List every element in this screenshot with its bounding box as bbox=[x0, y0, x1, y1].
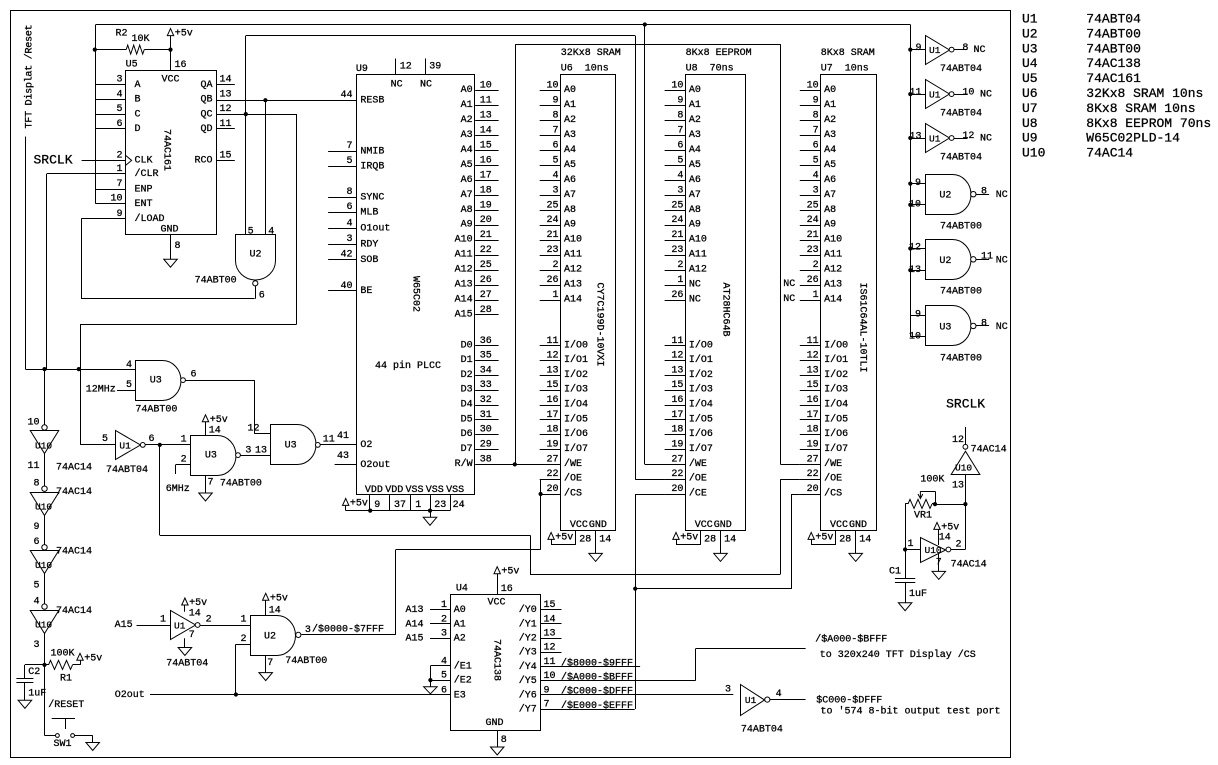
svg-text:AT28HC64B: AT28HC64B bbox=[720, 283, 731, 337]
svg-text:A12: A12 bbox=[455, 265, 473, 276]
svg-text:23: 23 bbox=[546, 245, 558, 256]
svg-text:R1: R1 bbox=[60, 673, 72, 684]
svg-text:A11: A11 bbox=[689, 250, 707, 261]
svg-text:/OE: /OE bbox=[824, 473, 842, 485]
svg-text:5: 5 bbox=[248, 227, 254, 238]
svg-text:74ABT00: 74ABT00 bbox=[135, 405, 177, 416]
svg-text:32Kx8 SRAM: 32Kx8 SRAM bbox=[561, 48, 621, 59]
svg-text:4: 4 bbox=[552, 170, 558, 181]
svg-text:/$E000-$EFFF: /$E000-$EFFF bbox=[561, 700, 633, 712]
svg-text:25: 25 bbox=[546, 200, 558, 211]
svg-text:A13: A13 bbox=[406, 605, 424, 616]
memory U8 address pins bbox=[665, 90, 686, 92]
svg-text:U1: U1 bbox=[1022, 12, 1038, 27]
svg-text:A2: A2 bbox=[689, 115, 701, 126]
svg-text:/OE: /OE bbox=[689, 473, 707, 485]
wire U8 /WE tie-high riser bbox=[644, 25, 646, 465]
wire QC riser to U8 /OE bus bbox=[245, 36, 247, 114]
svg-text:I/O5: I/O5 bbox=[689, 413, 713, 425]
svg-text:74ABT04: 74ABT04 bbox=[940, 64, 982, 75]
svg-text:21: 21 bbox=[480, 230, 492, 241]
svg-text:6: 6 bbox=[259, 290, 265, 301]
svg-text:43: 43 bbox=[337, 451, 349, 462]
svg-text:U10: U10 bbox=[955, 462, 972, 473]
svg-text:VCC: VCC bbox=[570, 520, 588, 531]
junction dot U9 ground bbox=[428, 509, 432, 513]
svg-text:100K: 100K bbox=[51, 649, 75, 660]
memory U8 body bbox=[686, 75, 746, 531]
svg-text:3: 3 bbox=[813, 185, 819, 196]
ground at SW1 bbox=[86, 743, 100, 751]
svg-text:23: 23 bbox=[807, 245, 819, 256]
svg-text:8: 8 bbox=[552, 111, 558, 122]
svg-text:19: 19 bbox=[546, 439, 558, 450]
svg-text:32: 32 bbox=[480, 395, 492, 406]
U3b pin 14 +5v bbox=[205, 422, 207, 435]
svg-text:A15: A15 bbox=[406, 634, 424, 645]
ground at U7 bbox=[849, 553, 863, 561]
svg-text:74ABT04: 74ABT04 bbox=[741, 725, 783, 736]
wire O2out to U4 E3 bbox=[150, 694, 450, 696]
svg-text:A5: A5 bbox=[689, 160, 701, 171]
svg-text:A1: A1 bbox=[689, 100, 701, 111]
svg-text:+5v: +5v bbox=[815, 532, 833, 543]
svg-text:A14: A14 bbox=[564, 295, 582, 306]
svg-text:U1: U1 bbox=[119, 440, 131, 451]
svg-text:A0: A0 bbox=[824, 85, 836, 96]
svg-text:8: 8 bbox=[175, 241, 181, 252]
svg-text:A4: A4 bbox=[461, 145, 473, 156]
svg-text:74AC161: 74AC161 bbox=[1086, 71, 1141, 86]
svg-text:8Kx8 SRAM 10ns: 8Kx8 SRAM 10ns bbox=[1086, 101, 1195, 116]
svg-text:I/O0: I/O0 bbox=[824, 339, 848, 351]
svg-text:10: 10 bbox=[909, 200, 921, 211]
switch SW1 bbox=[56, 734, 60, 738]
wire /E1 /E2 tie to ground bbox=[430, 665, 450, 667]
svg-text:21: 21 bbox=[807, 230, 819, 241]
U3b input 2 stub + 6MHz label bbox=[176, 464, 191, 466]
nand U2 spare (12,13->11) 74ABT00 bbox=[908, 246, 912, 250]
svg-text:U8: U8 bbox=[1022, 116, 1038, 131]
svg-text:U7 10ns: U7 10ns bbox=[821, 64, 869, 75]
U10 osc pin 7 ground bbox=[938, 554, 940, 571]
svg-text:VCC: VCC bbox=[830, 520, 848, 531]
svg-text:C2: C2 bbox=[28, 667, 40, 678]
svg-text:17: 17 bbox=[480, 170, 492, 181]
ground at U6 bbox=[589, 553, 603, 561]
U2e pin 7 ground bbox=[265, 655, 267, 672]
svg-text:/RESET: /RESET bbox=[48, 699, 84, 711]
svg-text:22: 22 bbox=[671, 469, 683, 480]
svg-text:A13: A13 bbox=[824, 280, 842, 291]
svg-text:A10: A10 bbox=[564, 235, 582, 246]
svg-text:I/O0: I/O0 bbox=[564, 339, 588, 351]
U5 pin 16 VCC stub bbox=[170, 50, 172, 71]
inverter U1 (QC divider buffer) 74ABT04 bbox=[116, 431, 141, 460]
svg-text:34: 34 bbox=[480, 365, 492, 376]
memory U7 body bbox=[821, 75, 877, 531]
svg-text:33: 33 bbox=[480, 380, 492, 391]
svg-text:U3: U3 bbox=[205, 450, 217, 461]
svg-text:U2: U2 bbox=[250, 250, 262, 261]
svg-text:41: 41 bbox=[337, 431, 349, 442]
junction dot R/W to U6 /WE bbox=[513, 462, 517, 466]
svg-text:19: 19 bbox=[807, 439, 819, 450]
svg-text:10: 10 bbox=[546, 81, 558, 92]
wire U5 /CLR from left bbox=[47, 173, 126, 175]
svg-text:4: 4 bbox=[776, 689, 782, 700]
svg-text:GND: GND bbox=[486, 718, 504, 729]
svg-text:CLK: CLK bbox=[135, 156, 153, 167]
svg-text:9: 9 bbox=[915, 43, 921, 54]
svg-text:/CS: /CS bbox=[824, 488, 842, 500]
U4 GND pin 8 bbox=[497, 730, 499, 747]
svg-text:A2: A2 bbox=[564, 115, 576, 126]
U9 top pin 39 NC bbox=[425, 59, 427, 75]
svg-text:6MHz: 6MHz bbox=[166, 484, 190, 495]
svg-text:D5: D5 bbox=[461, 414, 473, 425]
svg-text:A10: A10 bbox=[689, 235, 707, 246]
svg-text:7: 7 bbox=[346, 141, 352, 152]
svg-text:1: 1 bbox=[415, 500, 421, 511]
wire SRCLK to U5 CLK bbox=[82, 160, 126, 162]
svg-text:100K: 100K bbox=[920, 475, 944, 486]
svg-text:A11: A11 bbox=[564, 250, 582, 261]
svg-text:VSS: VSS bbox=[426, 485, 444, 496]
svg-text:A15: A15 bbox=[455, 309, 473, 320]
wire QC descender bbox=[296, 114, 298, 324]
svg-text:NC: NC bbox=[996, 190, 1008, 201]
svg-text:10: 10 bbox=[27, 417, 39, 428]
ground at U5 bbox=[164, 259, 178, 267]
svg-text:5: 5 bbox=[346, 156, 352, 167]
svg-text:74AC138: 74AC138 bbox=[491, 639, 502, 681]
wire /Y7 to U8 /CE and U7 /CS bbox=[540, 709, 634, 711]
svg-text:+5v: +5v bbox=[501, 567, 519, 578]
U2 output pin 6 wire bbox=[255, 286, 257, 299]
svg-text:8Kx8 SRAM: 8Kx8 SRAM bbox=[821, 48, 875, 59]
svg-text:25: 25 bbox=[671, 200, 683, 211]
svg-text:A12: A12 bbox=[689, 265, 707, 276]
svg-text:A1: A1 bbox=[461, 100, 473, 111]
svg-text:74ABT04: 74ABT04 bbox=[940, 152, 982, 163]
svg-text:I/O2: I/O2 bbox=[824, 369, 848, 381]
U9 right pins D0-D7 bbox=[475, 345, 498, 347]
wire U5 pin D stub bbox=[96, 128, 126, 130]
svg-text:VCC: VCC bbox=[695, 520, 713, 531]
ground at C1 bbox=[898, 603, 912, 611]
wire feedback to VR1 bbox=[935, 504, 965, 506]
svg-text:VR1: VR1 bbox=[914, 511, 932, 522]
wire U10 chain link bbox=[44, 574, 46, 604]
svg-text:/$C000-$DFFF: /$C000-$DFFF bbox=[561, 686, 633, 698]
svg-text:12: 12 bbox=[247, 424, 259, 435]
U2e pin 14 +5v bbox=[263, 593, 269, 600]
svg-text:+5v: +5v bbox=[84, 653, 102, 664]
svg-text:A2: A2 bbox=[461, 115, 473, 126]
svg-text:A9: A9 bbox=[689, 220, 701, 231]
svg-text:14: 14 bbox=[599, 535, 611, 546]
svg-text:13: 13 bbox=[807, 365, 819, 376]
svg-text:23: 23 bbox=[671, 245, 683, 256]
wire U5 pin ENT stub bbox=[96, 203, 126, 205]
svg-text:U6 10ns: U6 10ns bbox=[561, 64, 609, 75]
svg-text:NC: NC bbox=[974, 45, 986, 56]
svg-text:/CS: /CS bbox=[564, 488, 582, 500]
svg-text:7: 7 bbox=[544, 700, 550, 711]
U3a output bubble bbox=[181, 378, 186, 383]
svg-text:16: 16 bbox=[501, 584, 513, 595]
svg-text:28: 28 bbox=[839, 535, 851, 546]
svg-text:A14: A14 bbox=[455, 295, 473, 306]
svg-text:15: 15 bbox=[480, 141, 492, 152]
svg-text:1: 1 bbox=[116, 164, 122, 175]
svg-text:O2: O2 bbox=[360, 440, 372, 451]
wire reset net down to U10 chain bbox=[44, 369, 46, 425]
svg-text:74ABT00: 74ABT00 bbox=[285, 656, 327, 667]
svg-text:A13: A13 bbox=[564, 280, 582, 291]
svg-text:VSS: VSS bbox=[446, 485, 464, 496]
svg-text:10: 10 bbox=[480, 81, 492, 92]
wire down to switch bbox=[44, 665, 46, 736]
wire node to U10 input bbox=[905, 549, 921, 551]
svg-text:/Y6: /Y6 bbox=[519, 689, 537, 701]
svg-text:I/O7: I/O7 bbox=[824, 443, 848, 455]
svg-text:16: 16 bbox=[480, 155, 492, 166]
svg-text:35: 35 bbox=[480, 351, 492, 362]
svg-text:A1: A1 bbox=[824, 100, 836, 111]
wire U10 chain link bbox=[44, 515, 46, 545]
svg-text:SYNC: SYNC bbox=[360, 193, 384, 204]
svg-text:A11: A11 bbox=[824, 250, 842, 261]
svg-text:5: 5 bbox=[33, 581, 39, 592]
svg-text:16: 16 bbox=[671, 395, 683, 406]
svg-text:/Y5: /Y5 bbox=[519, 675, 537, 687]
svg-text:12: 12 bbox=[962, 131, 974, 142]
svg-text:8Kx8 EEPROM: 8Kx8 EEPROM bbox=[686, 48, 752, 59]
svg-text:A10: A10 bbox=[824, 235, 842, 246]
wire QC to U2 pin 5 bbox=[245, 114, 247, 235]
svg-text:W65C02PLD-14: W65C02PLD-14 bbox=[1086, 131, 1180, 146]
svg-text:C1: C1 bbox=[889, 567, 901, 578]
svg-text:U1: U1 bbox=[929, 134, 941, 145]
svg-text:A5: A5 bbox=[461, 160, 473, 171]
junction dot U9 +5v bbox=[368, 509, 372, 513]
svg-text:1uF: 1uF bbox=[909, 589, 927, 600]
memory U6 body bbox=[561, 75, 616, 531]
U5 pin QA stub bbox=[216, 84, 235, 86]
svg-text:+5v: +5v bbox=[189, 598, 207, 609]
memory U7 address pins bbox=[800, 90, 821, 92]
wire U6 select descender bbox=[540, 494, 542, 550]
CPU O2out pin 43 stub bbox=[335, 464, 357, 466]
svg-text:6: 6 bbox=[33, 537, 39, 548]
svg-text:13: 13 bbox=[255, 446, 267, 457]
wire spare-gate input rail bbox=[910, 25, 912, 337]
svg-text:8: 8 bbox=[677, 111, 683, 122]
svg-text:D2: D2 bbox=[461, 370, 473, 381]
svg-text:QB: QB bbox=[200, 95, 212, 106]
svg-text:21: 21 bbox=[546, 230, 558, 241]
svg-text:44 pin PLCC: 44 pin PLCC bbox=[375, 360, 441, 372]
svg-text:TFT Displat /Reset: TFT Displat /Reset bbox=[24, 25, 36, 129]
wire QB to CPU RESB bbox=[216, 100, 357, 102]
svg-text:2: 2 bbox=[116, 150, 122, 161]
svg-text:I/O4: I/O4 bbox=[564, 399, 588, 411]
svg-text:A10: A10 bbox=[455, 235, 473, 246]
svg-text:9: 9 bbox=[374, 500, 380, 511]
svg-text:U2: U2 bbox=[1022, 26, 1038, 41]
svg-text:R2: R2 bbox=[116, 29, 128, 40]
svg-text:10: 10 bbox=[110, 194, 122, 205]
svg-text:74AC138: 74AC138 bbox=[1086, 56, 1141, 71]
svg-text:7: 7 bbox=[677, 126, 683, 137]
svg-text:28: 28 bbox=[704, 535, 716, 546]
svg-text:11: 11 bbox=[671, 336, 683, 347]
svg-text:I/O3: I/O3 bbox=[564, 384, 588, 396]
svg-text:13: 13 bbox=[220, 89, 232, 100]
svg-text:/$A000-$BFFF: /$A000-$BFFF bbox=[561, 672, 633, 684]
svg-text:NC: NC bbox=[689, 295, 701, 306]
svg-text:U5: U5 bbox=[1022, 71, 1038, 86]
svg-text:13: 13 bbox=[671, 365, 683, 376]
svg-text:27: 27 bbox=[807, 454, 819, 465]
svg-text:A0: A0 bbox=[461, 85, 473, 96]
svg-text:4: 4 bbox=[677, 170, 683, 181]
svg-text:8Kx8 EEPROM 70ns: 8Kx8 EEPROM 70ns bbox=[1086, 116, 1211, 131]
svg-text:4: 4 bbox=[116, 89, 122, 100]
svg-text:4: 4 bbox=[268, 227, 274, 238]
U5 /LOAD wire loop from U2 output bbox=[81, 218, 125, 220]
svg-text:D4: D4 bbox=[461, 400, 473, 411]
svg-text:A3: A3 bbox=[564, 130, 576, 141]
U5 clock triangle symbol bbox=[126, 155, 132, 165]
svg-text:U10: U10 bbox=[35, 440, 52, 451]
svg-text:U6: U6 bbox=[1022, 86, 1038, 101]
wire U6 /OE + /CS tie bbox=[540, 479, 542, 494]
wire U1 output to test port bbox=[770, 699, 806, 701]
wire /OE bus to U8 bbox=[246, 35, 635, 37]
svg-text:+5v: +5v bbox=[680, 532, 698, 543]
svg-text:I/O1: I/O1 bbox=[824, 354, 848, 366]
svg-text:D0: D0 bbox=[461, 340, 473, 351]
svg-text:10K: 10K bbox=[132, 34, 150, 45]
junction dot oscillator input node bbox=[903, 547, 907, 551]
svg-text:A7: A7 bbox=[824, 190, 836, 201]
ground at U4 bbox=[490, 747, 504, 755]
svg-text:14: 14 bbox=[859, 535, 871, 546]
svg-text:U1: U1 bbox=[745, 695, 757, 706]
svg-text:28: 28 bbox=[480, 305, 492, 316]
U2e output bubble bbox=[296, 632, 301, 637]
wire U5 pin ENP stub bbox=[96, 189, 126, 191]
memory U7 control pins bbox=[800, 464, 821, 466]
svg-text:74ABT04: 74ABT04 bbox=[1086, 12, 1141, 27]
svg-text:25: 25 bbox=[807, 200, 819, 211]
junction dot spare-gate rail to U8 /WE bbox=[643, 22, 647, 26]
svg-text:1: 1 bbox=[240, 615, 246, 626]
svg-text:3: 3 bbox=[677, 185, 683, 196]
svg-text:GND: GND bbox=[161, 225, 179, 236]
svg-text:20: 20 bbox=[671, 484, 683, 495]
svg-text:10: 10 bbox=[962, 87, 974, 98]
svg-text:7: 7 bbox=[552, 126, 558, 137]
wire U8 /OE riser from QC bus bbox=[635, 36, 637, 479]
svg-text:36: 36 bbox=[480, 336, 492, 347]
inverter U1 spare (9->8) 74ABT04 bbox=[908, 48, 912, 52]
svg-text:/WE: /WE bbox=[824, 458, 842, 470]
svg-text:/Y2: /Y2 bbox=[519, 633, 537, 645]
svg-text:7: 7 bbox=[208, 478, 214, 489]
svg-text:5: 5 bbox=[116, 104, 122, 115]
svg-text:5: 5 bbox=[126, 380, 132, 391]
svg-text:U4: U4 bbox=[456, 584, 468, 595]
svg-text:6: 6 bbox=[149, 434, 155, 445]
svg-text:22: 22 bbox=[546, 469, 558, 480]
svg-text:A: A bbox=[135, 80, 141, 91]
svg-text:I/O7: I/O7 bbox=[564, 443, 588, 455]
junction dot reset-RC node bbox=[42, 663, 46, 667]
U9 top pin 12 NC bbox=[395, 59, 397, 75]
svg-text:3: 3 bbox=[441, 629, 447, 640]
svg-text:13: 13 bbox=[909, 132, 921, 143]
svg-text:8: 8 bbox=[346, 187, 352, 198]
svg-text:I/O3: I/O3 bbox=[689, 384, 713, 396]
svg-text:9: 9 bbox=[813, 96, 819, 107]
svg-text:74ABT00: 74ABT00 bbox=[1086, 41, 1141, 56]
svg-text:74AC14: 74AC14 bbox=[56, 463, 92, 474]
svg-text:U10: U10 bbox=[35, 502, 52, 513]
U1f pin 14 +5v bbox=[182, 598, 188, 605]
svg-text:1: 1 bbox=[907, 539, 913, 550]
wire U5 pin B stub bbox=[96, 99, 126, 101]
U4 +5v pin 16 bbox=[494, 567, 500, 574]
svg-text:A2: A2 bbox=[454, 634, 466, 645]
wire U7 /CS descender bbox=[792, 494, 800, 496]
svg-text:I/O4: I/O4 bbox=[689, 399, 713, 411]
svg-text:13: 13 bbox=[546, 365, 558, 376]
svg-text:22: 22 bbox=[807, 469, 819, 480]
wire /Y4 stub bbox=[540, 666, 640, 668]
svg-text:NC: NC bbox=[996, 322, 1008, 333]
svg-text:B: B bbox=[135, 95, 141, 106]
svg-text:14: 14 bbox=[480, 126, 492, 137]
svg-text:2: 2 bbox=[240, 634, 246, 645]
svg-text:12: 12 bbox=[952, 435, 964, 446]
svg-text:8: 8 bbox=[981, 318, 987, 329]
U2 output bubble bbox=[253, 281, 258, 286]
svg-text:2: 2 bbox=[552, 260, 558, 271]
svg-text:U1: U1 bbox=[174, 621, 186, 632]
capacitor C2 bbox=[25, 664, 45, 666]
svg-text:U7: U7 bbox=[1022, 101, 1038, 116]
svg-text:1: 1 bbox=[813, 290, 819, 301]
inverter U10 (1->2) 74AC14 bbox=[921, 538, 946, 563]
svg-text:15: 15 bbox=[546, 380, 558, 391]
svg-text:14: 14 bbox=[269, 606, 281, 617]
svg-text:6: 6 bbox=[813, 141, 819, 152]
svg-text:O1out: O1out bbox=[360, 224, 390, 235]
svg-text:20: 20 bbox=[480, 215, 492, 226]
svg-text:15: 15 bbox=[671, 380, 683, 391]
wire 12MHz gate out down to U3c pin 12 bbox=[254, 380, 256, 434]
svg-text:26: 26 bbox=[480, 275, 492, 286]
svg-text:A6: A6 bbox=[564, 175, 576, 186]
ground at C2 bbox=[18, 700, 32, 708]
svg-text:A7: A7 bbox=[564, 190, 576, 201]
svg-text:U2: U2 bbox=[939, 256, 951, 267]
svg-text:74AC14: 74AC14 bbox=[56, 487, 92, 498]
